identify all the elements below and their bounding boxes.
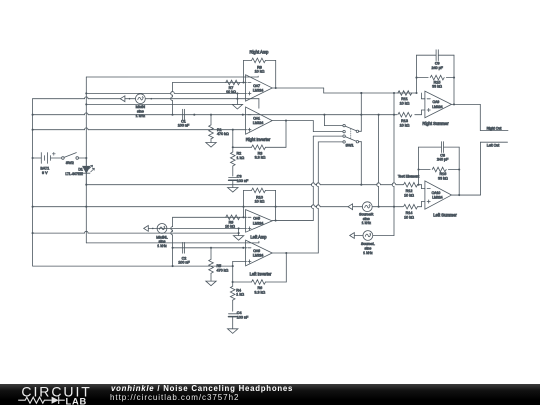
wire left rail B [85,77,87,243]
svg-text:BAT1: BAT1 [40,166,49,170]
svg-text:LM324: LM324 [432,105,442,109]
wire test element line [85,183,419,186]
svg-text:1 kΩ: 1 kΩ [236,292,244,296]
wire OA10 output [451,142,480,195]
svg-text:240 pF: 240 pF [437,158,449,162]
wire plus-input bus right amp [86,92,246,94]
wire SW1 sec1 out [360,92,362,131]
label right summer [422,121,449,126]
battery BAT1 [32,152,63,175]
wire bottom line [33,265,234,267]
wire OA1 top stub [258,99,260,109]
svg-text:R11: R11 [401,97,408,101]
capacitor C9 [431,50,443,70]
wire OA10 plus jog [418,202,425,207]
wire OA6 output [272,252,318,254]
wire MicIN line [33,97,259,99]
resistor R7 [226,80,240,94]
svg-text:Left Amp: Left Amp [250,235,267,240]
wire R13 to SourceR riser [377,115,379,207]
svg-text:R14: R14 [406,211,413,215]
flag Left Out [481,142,508,147]
svg-text:OA10: OA10 [432,191,441,195]
svg-text:10 kΩ: 10 kΩ [255,199,265,203]
wire right summer feedback [415,55,455,105]
wire SourceL riser [354,93,394,236]
wire SW1 sec2 out [360,142,362,185]
wire right amp feedback [244,60,277,89]
svg-text:10 kΩ: 10 kΩ [225,224,235,228]
ground left amp plus [233,228,243,240]
op-amp OA5 [246,210,273,233]
source MicIN [120,94,152,118]
label left inverter [250,271,272,276]
wire OA6 plus line [233,261,247,282]
svg-text:1 kHz: 1 kHz [136,114,146,118]
ground R5 [206,281,216,286]
capacitor C2 [178,242,190,264]
svg-text:1 kHz: 1 kHz [157,244,167,248]
svg-text:LTL-307EE: LTL-307EE [65,172,83,176]
svg-text:LM324: LM324 [253,89,263,93]
wire MicINL line [144,223,247,247]
svg-text:9 V: 9 V [42,171,48,175]
resistor R9 [225,215,240,228]
svg-text:OA5: OA5 [253,217,260,221]
source SourceR [348,202,374,225]
ground right amp plus [232,92,242,109]
resistor R13 [398,112,412,127]
capacitor C8 [437,142,449,162]
capacitor C1 [178,109,196,127]
CircuitLab logo [0,383,105,405]
svg-text:R16: R16 [440,172,447,176]
svg-text:33 kΩ: 33 kΩ [432,85,442,89]
resistor R2 [231,130,245,176]
svg-text:LM324: LM324 [432,196,442,200]
svg-text:3.3 kΩ: 3.3 kΩ [254,290,265,294]
svg-text:3.3 kΩ: 3.3 kΩ [255,156,266,160]
resistor R6 [251,280,265,295]
svg-text:Test Element: Test Element [398,174,419,178]
svg-text:OA6: OA6 [253,249,260,253]
LED D1 [65,158,94,185]
resistor R1 [209,115,229,143]
svg-text:SW2: SW2 [66,161,74,165]
wire R6 row [232,253,287,283]
resistor R10 [252,188,266,203]
op-amp OA1 [246,107,273,134]
label left amp [250,235,267,240]
svg-text:100 nF: 100 nF [237,315,249,319]
wire OA7 output [272,88,324,93]
svg-text:D1: D1 [78,167,83,171]
wire summer R line [324,92,418,94]
svg-text:100 nF: 100 nF [178,124,190,128]
wire left summer feedback [417,147,460,196]
svg-text:OA7: OA7 [253,84,260,88]
switch SW2 [62,153,88,165]
wire OA5 out riser [311,136,313,220]
wire bias bus [32,205,403,208]
svg-text:OA9: OA9 [433,100,440,104]
svg-text:Left Summer: Left Summer [433,213,457,218]
source SourceL [350,231,375,255]
wire OA9 plus jog [415,110,425,115]
label left summer [433,213,457,218]
label right inverter [246,137,271,142]
svg-text:R13: R13 [401,119,408,123]
svg-text:R12: R12 [406,189,413,193]
flag Right Out [480,126,508,130]
switch SW1 [313,115,361,148]
resistor R11 [398,91,412,106]
svg-text:Left Out: Left Out [487,144,499,148]
wire mic source line [32,113,397,116]
svg-text:10 kΩ: 10 kΩ [400,123,410,127]
svg-text:LAB: LAB [65,396,87,405]
node test line end [402,184,404,186]
wire R3 row [232,121,286,149]
node R7 feedback [242,81,244,83]
wire OA10 minus jog [418,185,425,189]
svg-text:10 kΩ: 10 kΩ [226,90,236,94]
node rail B top [85,92,87,94]
wire mid line [32,231,240,234]
wire left rail A [32,99,34,266]
svg-text:Right Amp: Right Amp [250,49,270,54]
wire OA5 output [272,220,313,222]
op-amp OA7 [246,75,273,101]
resistor R5 [209,248,229,281]
svg-text:10 kΩ: 10 kΩ [400,102,410,106]
svg-text:10 kΩ: 10 kΩ [404,215,414,219]
resistor R8 [252,58,266,73]
wire left amp feedback [243,190,276,221]
ground R1 [206,142,216,147]
wire R7 riser [171,82,174,115]
resistor R14 [403,204,417,219]
resistor R4 [230,282,244,311]
svg-text:Left Inverter: Left Inverter [250,271,272,276]
wire OA9 minus jog [422,93,425,99]
svg-text:OA1: OA1 [253,116,260,120]
wire OA6 out riser [316,142,318,253]
svg-text:470 kΩ: 470 kΩ [217,132,229,136]
op-amp OA9 [425,91,452,118]
svg-text:10 kΩ: 10 kΩ [255,69,265,73]
ground C4 [227,317,237,334]
svg-text:LM324: LM324 [253,221,263,225]
svg-text:Right Inverter: Right Inverter [246,137,271,142]
wire OA1 output [272,120,313,132]
svg-text:Right Summer: Right Summer [422,121,449,126]
svg-text:sine: sine [363,217,370,221]
svg-text:100 nF: 100 nF [237,179,249,183]
wire R9 riser [171,217,174,267]
svg-text:1 kHz: 1 kHz [363,251,373,255]
svg-text:100 nF: 100 nF [178,261,190,265]
svg-text:LM324: LM324 [253,254,263,258]
resistor R12 [404,182,418,197]
capacitor C3 [229,174,249,182]
label test element [398,174,419,178]
wire V+ bus to op-amps [86,75,258,78]
label right amp [250,49,270,54]
svg-text:1 kΩ: 1 kΩ [237,156,245,160]
svg-text:33 kΩ: 33 kΩ [438,177,448,181]
wire R9 line [173,216,247,218]
svg-text:LM324: LM324 [253,121,263,125]
wire C2 line [173,247,247,249]
svg-text:R15: R15 [434,80,441,84]
wire OA9 output [451,104,480,130]
wire OA1 plus line [32,128,247,131]
svg-text:Right Out: Right Out [487,126,502,130]
svg-text:470 kΩ: 470 kΩ [216,268,228,272]
resistor R15 [430,75,444,88]
svg-text:sine: sine [365,246,372,250]
svg-text:10 kΩ: 10 kΩ [404,193,414,197]
svg-text:240 pF: 240 pF [431,66,443,70]
capacitor C4 [228,311,249,319]
node OA1 minus [0,0,1,1]
resistor R3 [252,145,266,160]
wire analog ground line [85,103,242,105]
op-amp OA6 [246,240,273,266]
svg-text:SW1: SW1 [346,144,354,148]
resistor R16 [432,167,448,180]
svg-text:1 kHz: 1 kHz [362,221,372,225]
op-amp OA10 [425,181,452,209]
wire R7 line [173,81,247,83]
wire left inverter bus [86,241,259,243]
ground C3 [228,180,238,192]
